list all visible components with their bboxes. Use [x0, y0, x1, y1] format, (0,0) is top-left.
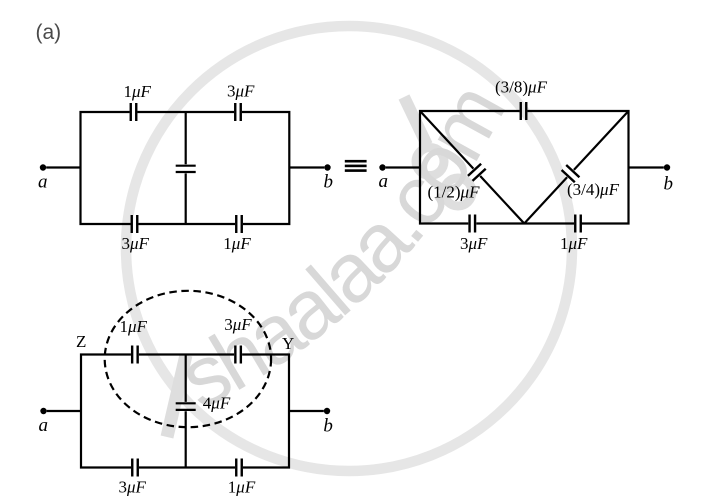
svg-text:(3/8)μF: (3/8)μF	[495, 78, 548, 97]
svg-text:3μF: 3μF	[460, 234, 488, 253]
svg-text:a: a	[39, 415, 49, 436]
svg-text:(a): (a)	[36, 21, 62, 44]
svg-text:3μF: 3μF	[122, 234, 150, 253]
svg-text:1μF: 1μF	[124, 82, 152, 101]
svg-text:(3/4)μF: (3/4)μF	[567, 180, 620, 199]
svg-text:a: a	[38, 172, 48, 193]
svg-text:3μF: 3μF	[227, 82, 255, 101]
svg-text:b: b	[323, 416, 333, 437]
svg-text:4μF: 4μF	[203, 394, 231, 413]
svg-text:1μF: 1μF	[120, 317, 148, 336]
svg-text:a: a	[379, 171, 389, 192]
svg-text:(1/2)μF: (1/2)μF	[428, 183, 481, 202]
svg-text:3μF: 3μF	[224, 315, 252, 334]
svg-text:b: b	[324, 172, 334, 193]
svg-text:1μF: 1μF	[223, 234, 251, 253]
svg-text:3μF: 3μF	[119, 478, 147, 497]
svg-text:Y: Y	[282, 334, 294, 353]
svg-text:1μF: 1μF	[560, 234, 588, 253]
svg-text:Z: Z	[76, 332, 86, 351]
svg-text:b: b	[664, 174, 674, 195]
svg-text:1μF: 1μF	[228, 478, 256, 497]
